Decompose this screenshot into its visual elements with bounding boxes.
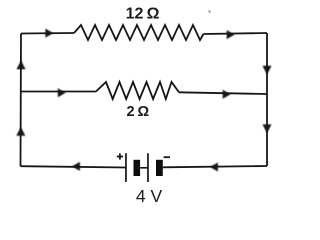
wire bottom right segment [163,166,267,167]
arrow current top-right (right) [227,30,235,39]
svg-text:4 V: 4 V [136,186,163,206]
battery B1 [117,153,170,182]
arrow current bottom-left (left) [72,162,80,171]
arrow current bottom-right (left) [210,163,218,172]
arrow current middle-right (right) [223,90,231,99]
wire right vertical [266,33,268,166]
arrow current right-down lower [263,124,272,133]
battery minus sign [164,156,170,158]
arrow current left-up lower [16,127,25,136]
battery plate long 1 (+) [125,153,127,182]
arrow current top-left (right) [45,29,53,38]
wire middle right segment [179,92,267,94]
battery plate long 2 [147,153,149,182]
arrow current middle-left (right) [58,88,66,97]
stray scan dot [208,10,210,12]
wire left vertical [20,34,23,167]
battery plate short 1 [134,160,141,176]
battery plate short 2 (-) [156,160,163,176]
wire top right segment [204,33,268,34]
battery plus sign [117,153,123,159]
battery inter-cell connector wire [140,167,148,169]
wire bottom left segment [21,166,126,167]
resistor R1 12 ohm zigzag [74,25,204,40]
svg-text:2 Ω: 2 Ω [127,104,150,120]
arrow current right-down upper [263,66,272,75]
resistor R2 2 ohm zigzag [96,82,179,99]
wire top left segment [21,32,74,35]
arrow current left-up upper [17,60,26,69]
svg-text:12 Ω: 12 Ω [126,5,160,22]
wire middle left segment [21,91,97,93]
